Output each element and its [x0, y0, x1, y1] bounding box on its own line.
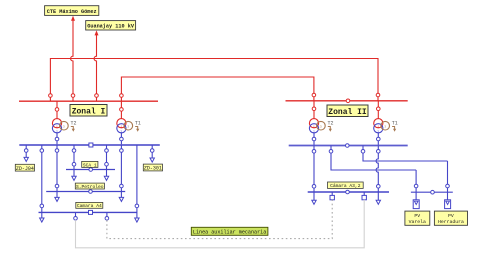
wire to Guanajay 110kV (with hop over line A): [94, 35, 96, 102]
svg-text:3: 3: [384, 126, 386, 129]
open bus section node Zona II: [346, 99, 350, 103]
svg-text:Linea auxiliar mecanaria: Linea auxiliar mecanaria: [193, 230, 266, 236]
load arrow Camara A4 right: [135, 212, 139, 222]
svg-text:1: 1: [120, 125, 122, 128]
svg-text:PV: PV: [448, 213, 454, 219]
wire LV Zona II to Camara A3,2 left: [312, 146, 316, 193]
label Camara A4: [76, 202, 103, 209]
open node on Camara A3,2 bus: [346, 190, 350, 194]
busbar Camara A4: [39, 211, 138, 213]
busbar SCA 1: [66, 169, 115, 171]
transformer T2 Zona I: [52, 101, 76, 145]
transformer T1 Zona I: [117, 101, 141, 145]
svg-text:Zonal II: Zonal II: [328, 108, 367, 117]
busbar Camara A3,2: [308, 191, 389, 193]
arrow to CTE Maximo Gomez: [71, 16, 75, 21]
label S.Petroleo: [75, 183, 104, 190]
svg-text:ZD-J04: ZD-J04: [16, 166, 34, 172]
switch node on line A at Zona II: [376, 93, 380, 97]
label ZD-J04: [15, 164, 34, 172]
svg-text:1: 1: [377, 125, 379, 128]
switch square to aux dashed (Camara A3,2): [330, 192, 334, 200]
busbar Zona I (110kV red): [19, 100, 158, 102]
open node on Camara A4 bus: [89, 210, 93, 214]
wire LV bus to Camara A4 (right riser): [135, 145, 139, 212]
busbar S.Petroleo: [46, 191, 125, 193]
svg-text:CTE Máximo Gómez: CTE Máximo Gómez: [47, 9, 97, 15]
svg-text:Herradura: Herradura: [438, 219, 464, 225]
transformer T2 Zona II: [309, 101, 333, 146]
svg-text:3: 3: [63, 126, 65, 129]
svg-text:2: 2: [313, 130, 315, 133]
open node on PV tie: [431, 190, 435, 194]
switch node on line B at Zona I: [120, 94, 124, 98]
busbar PV tie: [411, 191, 453, 193]
svg-text:Varela: Varela: [409, 219, 426, 225]
busbar Zona II (110kV red): [286, 100, 408, 102]
label Linea auxiliar mecanaria: [191, 227, 268, 235]
wire LV Zona II to Camara A3,2 right (hops over PV lines): [376, 146, 380, 193]
svg-text:1: 1: [56, 125, 58, 128]
wire line B (tie Zona I to Zona II lower): [121, 77, 314, 101]
label SCA 1: [82, 161, 98, 168]
svg-text:S.Petroleo: S.Petroleo: [76, 184, 104, 190]
switch node on line A at Zona I: [49, 94, 53, 98]
switch square to aux solid (Camara A3,2): [362, 192, 366, 200]
label PV Herradura: [434, 211, 467, 225]
switch node to aux line solid (Camara A4): [74, 212, 78, 220]
svg-text:2: 2: [120, 130, 122, 133]
svg-text:Zonal I: Zonal I: [72, 107, 106, 116]
load arrow Camara A4 left: [40, 212, 44, 222]
switch node to aux line dashed (Camara A4): [105, 212, 109, 220]
wire LV Zona II to PV Varela: [329, 146, 416, 171]
load arrow S.Petroleo left: [55, 192, 59, 202]
label Guanajay 110 kV: [86, 21, 136, 30]
wire LV bus to SCA bus at x106.5: [104, 145, 108, 180]
load arrow Camara A3,2 left: [312, 192, 316, 204]
switch node on line B at Zona II: [312, 93, 316, 97]
svg-text:SCA 1: SCA 1: [83, 162, 97, 168]
label Zonal II: [327, 105, 368, 117]
open node on SCA 1 bus: [89, 168, 93, 172]
wire to CTE Maximo Gomez (with hop over line A): [71, 20, 73, 102]
svg-text:Guanajay 110 kV: Guanajay 110 kV: [87, 24, 135, 30]
PV generator Herradura: [445, 200, 451, 209]
label CTE Maximo Gomez: [45, 6, 99, 16]
open node on S.Petroleo bus: [89, 190, 93, 194]
load arrow Camara A3,2 right: [376, 192, 380, 204]
label Zonal I: [70, 105, 107, 117]
wire LV bus to S.Petroleo at x57: [55, 145, 59, 192]
svg-text:ZD-301: ZD-301: [144, 166, 162, 172]
svg-text:Camara A4: Camara A4: [77, 203, 102, 209]
svg-text:T2: T2: [328, 121, 334, 127]
transformer T1 Zona II: [374, 101, 398, 146]
label PV Varela: [405, 211, 430, 225]
feeder ZD-J04: [24, 145, 28, 162]
open node on LV Zona II bus: [346, 144, 350, 148]
svg-text:T1: T1: [135, 121, 141, 127]
feeder ZD-301: [150, 145, 154, 162]
label Camara A3,2: [328, 182, 364, 189]
PV generator Varela: [413, 200, 419, 209]
arrow to Guanajay 110kV: [95, 30, 99, 35]
wire LV bus to S.Petroleo at x121.4: [120, 145, 124, 192]
wire LV Zona II to PV Herradura: [361, 146, 447, 162]
wire LV bus to Camara A4 (left riser): [40, 145, 44, 212]
label ZD-301: [143, 164, 162, 172]
svg-text:2: 2: [56, 130, 58, 133]
aux tie line dashed (Camara A4 to Camara A3,2): [107, 200, 332, 239]
wire to PV Varela inverter: [414, 170, 418, 200]
svg-text:3: 3: [127, 126, 129, 129]
switch node on CTE feeder: [71, 94, 75, 98]
svg-text:2: 2: [377, 130, 379, 133]
switch node on Guanajay feeder: [95, 94, 99, 98]
svg-text:PV: PV: [414, 213, 420, 219]
busbar LV Zona I (blue): [19, 144, 160, 146]
svg-text:3: 3: [320, 126, 322, 129]
wire to PV Herradura inverter: [446, 161, 450, 200]
svg-text:1: 1: [313, 125, 315, 128]
svg-text:T2: T2: [71, 121, 77, 127]
load arrow S.Petroleo right: [119, 192, 123, 202]
busbar LV Zona II (blue): [289, 145, 408, 147]
wire line A (tie Zona I to Zona II upper): [50, 59, 378, 102]
svg-text:Cámara A3,2: Cámara A3,2: [330, 183, 361, 189]
open bus section square on LV Zona I bus: [89, 143, 93, 147]
aux tie line solid (Camara A4 to Camara A3,2): [76, 200, 365, 248]
wire LV bus to SCA bus at x74: [72, 145, 76, 180]
svg-text:T1: T1: [392, 121, 398, 127]
